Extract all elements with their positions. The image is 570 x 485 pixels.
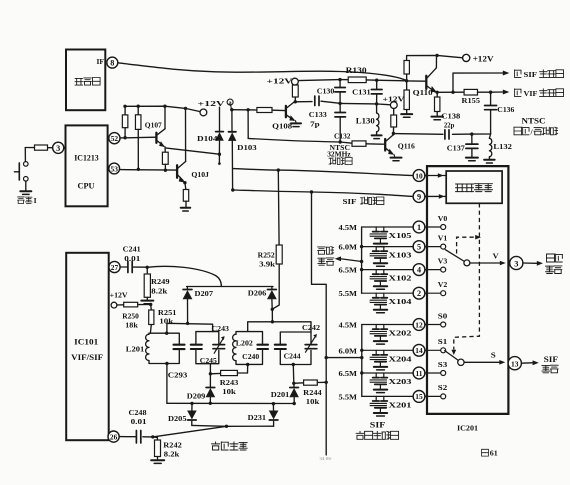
arrow into pin 3 [500,261,506,266]
wire D206 node to tank2 rail [271,309,273,321]
ceramic filter X104 [370,293,388,313]
ceramic filter X201 [370,396,388,416]
svg-text:8.2k: 8.2k [151,286,168,295]
label +12V (top right) [473,54,494,63]
wire row X102 [362,269,414,271]
ground (switch) [20,191,31,194]
node D201 bottom [293,402,296,405]
resistor divider bottom [404,81,409,113]
label SIF bandpass (dai-tong-lv-bo-qi) [356,420,399,439]
svg-text:C133: C133 [309,110,327,119]
wire diagonal Q107 emitter to D104 [165,148,219,154]
pin 26 [108,431,119,442]
IC201 box [427,166,508,414]
wire SIF branch up and right [453,73,503,92]
label X102 [389,274,412,283]
node R-a on 52 line [123,136,126,139]
node rail-R2 [137,105,140,108]
label D206 [248,288,267,297]
node bus row5 [360,245,363,248]
svg-text:22p: 22p [444,120,455,129]
svg-text:5.5M: 5.5M [339,289,358,298]
wire base line [407,80,426,82]
+12V terminal (L130 area) [390,102,397,109]
node tank1 bottom [165,362,168,365]
svg-text:V1: V1 [438,234,448,242]
label D205 [168,414,187,423]
svg-text:4.5M: 4.5M [339,321,358,330]
svg-text:D231: D231 [248,413,267,422]
CPU box IC1213 [66,125,108,206]
label VIF/SIF [71,353,103,362]
node SIF branch [451,91,454,94]
node Q110 emitter [436,91,439,94]
label SIF output [542,355,558,373]
label 5.5M (row X201) [339,392,358,401]
label R249 8.2k [151,277,170,295]
label IC101 [74,338,98,347]
svg-text:L202: L202 [236,339,253,347]
diode D104 [216,107,224,165]
ground (Q116) [391,158,402,161]
label NTSC image/sound ratio [514,117,558,137]
label S1 [438,338,448,346]
svg-text:4.5M: 4.5M [339,223,358,232]
wire long vertical (SIF feed to S-filters) [312,192,327,455]
svg-text:S1: S1 [438,338,448,346]
svg-text:D201: D201 [271,390,290,399]
label C243 [212,324,230,333]
wire to +12V terminal [186,108,201,111]
contact S1 [441,348,446,353]
label detector output (jian-bo shu-chu) [318,247,334,266]
resistor Q116 base [352,141,384,146]
svg-text:52: 52 [111,134,119,143]
wire NTSC line to pin 10 [233,169,413,176]
svg-text:12: 12 [415,320,423,329]
switch zhishi (mode select) [14,162,28,182]
+12V terminal (IC101 area) [111,302,117,308]
wire pin52 line [120,136,156,139]
inductor L132 [489,134,491,159]
svg-text:S0: S0 [438,312,448,320]
contact S2 [441,394,446,399]
wire switch to ground [25,181,27,190]
contact V0 [441,225,446,230]
wire S feed from long vertical [325,356,362,359]
node C137 top [470,132,473,135]
ground (L130) [372,135,382,138]
wire pin8 to Q110 base node [118,63,407,81]
svg-text:C242: C242 [302,323,320,332]
svg-text:10: 10 [415,171,423,180]
label S [491,351,496,360]
wire top rail 12V to Q107/Q10J [125,106,186,108]
node C131-L130 junction [375,102,378,105]
svg-text:C132: C132 [334,131,351,140]
resistor divider top [404,61,409,75]
wire pin27 to C241 [120,266,127,268]
svg-text:+12V: +12V [267,76,294,85]
pin 52 [109,133,120,144]
wire row X104 [362,292,414,294]
wire junction row C130-C131-12V [340,103,390,104]
switch S common [458,359,464,365]
wire pin 15 to contact S2 [425,395,441,397]
label R251 10k [158,308,177,326]
label Q116 [398,142,415,151]
ceramic filter X105 [370,227,388,247]
node D206-R252 [271,308,274,311]
svg-text:VIF/SIF: VIF/SIF [71,353,103,362]
svg-text:53: 53 [111,164,119,173]
svg-text:Q107: Q107 [145,121,162,130]
label C293 [168,371,188,380]
+12V terminal (Q107 area) [200,109,207,116]
label D209 [187,392,206,401]
wire tank1 bottom drop [166,364,168,404]
resistor R252 [276,245,282,264]
resistor R130 [340,77,377,83]
wire node A drop to NTSC trap line [246,108,249,138]
svg-text:1: 1 [417,223,421,232]
dashed branch to V switch [457,237,475,253]
capacitor C130 [335,80,346,104]
ground (C137) [466,158,478,161]
svg-text:2: 2 [417,289,421,298]
V-group bus [361,227,363,293]
label V [493,251,500,260]
transistor Q107 [156,106,165,147]
wire pin26 to C248 [119,436,135,438]
wire Q108 collector node [294,100,296,103]
label C240 [242,353,259,361]
+12V terminal (Q108) [292,78,299,85]
ceramic filter X103 [370,247,388,267]
svg-text:15: 15 [415,392,423,401]
wire pin 11 to contact S3 [425,372,441,374]
node C130 top on rail [338,78,341,81]
svg-text:C130: C130 [317,86,335,95]
diode D206 [268,287,277,310]
label D201 [271,390,290,399]
capacitor C244 plates [275,345,286,349]
label X204 [389,354,412,363]
label R130 [346,66,367,75]
svg-text:+12V: +12V [383,95,406,104]
wire row X204 [362,349,413,351]
svg-text:3: 3 [514,259,518,268]
ceramic filter X204 [370,350,388,370]
svg-text:X202: X202 [389,329,412,338]
capacitor C293 (on L201 box edge) [174,345,185,349]
svg-text:C240: C240 [242,353,259,361]
svg-text:D209: D209 [187,392,206,401]
node rail-Q107 collector [163,105,166,108]
pin 4 [413,264,425,276]
label C133 [309,110,327,128]
resistor Q110 emitter [435,92,440,115]
wire C241 node to discriminator top (curved) [147,266,221,286]
svg-text:R130: R130 [346,66,367,75]
svg-text:11: 11 [416,369,423,378]
label C241 0.01 [123,245,141,263]
svg-text:18k: 18k [125,320,138,329]
wire Q116 emitter to ground [393,155,395,157]
wire a to node A [231,105,232,110]
label IC201 [457,423,478,432]
node R-b bottom on 53 line [137,168,140,171]
label 6.0M (row X204) [339,346,358,355]
contact V1 [441,244,446,249]
switch S lever [445,351,459,361]
label C244 [284,353,301,361]
resistor Q107 emitter [162,152,168,170]
svg-text:C243: C243 [212,324,230,333]
inductor L130 [377,104,379,135]
label D103 [237,143,257,152]
label mode-I (zhi-shi I) [18,197,37,205]
pin 9 [413,191,425,203]
arrow to VIF amp [503,90,510,95]
arrow on V control [475,235,481,240]
pin 10 [413,170,425,182]
net mark a (circled) [227,99,233,107]
label L201 [126,345,145,354]
svg-text:V2: V2 [438,281,448,289]
wire pin3 to box [64,147,66,149]
node emitter-R on 53 line [164,169,167,172]
label L130 [356,117,375,126]
ground (R249) [141,301,153,304]
wire pin9 into logic [425,194,446,199]
label to-SIF-amplifier [515,70,564,79]
switch V lever [445,250,464,262]
svg-text:6.5M: 6.5M [339,369,358,378]
node bottom line [225,425,228,428]
wire emitter to R155 [437,91,464,93]
svg-text:6.5M: 6.5M [339,266,358,275]
label figure 61 [482,449,499,457]
resistor Q108 collector (to +12V) [292,85,298,102]
wire R252 to D206 node [272,264,279,309]
node D205 top [190,402,193,405]
wire pin 2 to contact V2 [425,292,441,294]
svg-text:CPU: CPU [78,180,95,190]
wire video out [523,262,537,264]
svg-text:L201: L201 [126,345,145,354]
node detector-out tap [360,260,363,263]
label C138 22p [441,111,460,129]
wire pin 12 to contact S0 [425,324,441,326]
svg-text:7p: 7p [310,119,320,128]
wire pin 14 to contact S1 [425,349,441,351]
svg-text:C131: C131 [352,88,371,97]
wire pin 5 to contact V1 [425,246,441,248]
node Q10J emitter [183,181,186,184]
svg-text:D103: D103 [237,143,257,152]
pin 1 [413,221,425,233]
svg-text:L132: L132 [493,142,512,151]
svg-text:C138: C138 [441,111,460,120]
label S3 [438,361,448,369]
svg-text:SIF: SIF [524,70,538,79]
label R244 10k [303,388,322,406]
label R252 3.9k [258,251,276,269]
label X202 [389,329,412,338]
label tuner (diao-xie-qi) [75,78,100,86]
pin 3 (video out) [510,256,523,269]
svg-text:0.01: 0.01 [124,254,140,263]
wire detector output bottom line [192,424,274,427]
wire row X103 [362,246,414,248]
diode D201 [290,383,299,403]
svg-text:IF: IF [97,57,105,66]
label C131 [352,88,371,97]
svg-text:IC201: IC201 [457,423,478,432]
label Q110 [413,88,433,97]
node C136 top [489,91,492,94]
ceramic filter X202 [370,325,388,345]
svg-text:R249: R249 [151,277,170,286]
wire pin53 line [120,169,177,172]
+12V terminal (top right) [463,54,470,61]
svg-text:+12V: +12V [198,99,226,108]
svg-text:8: 8 [110,59,114,68]
label D104 [197,134,218,143]
node C244 bottom stub [292,363,296,385]
svg-text:0.01: 0.01 [131,417,147,426]
resistor R251 [149,305,154,334]
label C248 0.01 [129,408,147,426]
node S feed [360,356,363,359]
capacitor C244 tank box [280,332,311,365]
svg-text:V0: V0 [438,215,448,223]
resistor Q116 collector from +12V [391,109,397,134]
svg-text:C293: C293 [168,371,188,380]
label X103 [389,251,412,260]
arrow SIF out [533,360,539,365]
logic circuit box [446,171,502,203]
ground (L132) [484,160,495,163]
wire down to switch [24,148,26,162]
label C132 [334,131,351,140]
wire emitter to resistor [184,183,187,190]
node A [230,108,233,111]
pin 11 [413,367,425,379]
svg-text:C248: C248 [129,408,147,417]
resistor R250 [117,302,151,307]
wire SIF out [521,362,532,364]
watermark tiny text [320,456,333,461]
label Q10J [191,170,209,179]
svg-text:C245: C245 [200,356,217,365]
capacitor C245 plates [191,345,202,349]
svg-text:V: V [493,251,500,260]
label +12V (Q107 area) [198,99,226,108]
label C137 [447,143,465,152]
trimmer C243 (on C245 box edge) [213,336,225,353]
svg-text:C244: C244 [284,353,301,361]
svg-text:IC101: IC101 [74,338,98,347]
svg-text:X204: X204 [389,354,412,363]
svg-text:C241: C241 [123,245,141,254]
label +12V (Q108) [267,76,294,85]
svg-text:D205: D205 [168,414,187,423]
svg-text:I: I [34,197,37,205]
wire pin10 into logic [425,173,446,178]
wire R243 to L202 bottom [246,363,249,373]
svg-text:R155: R155 [462,96,481,105]
label C242 [302,323,320,332]
wire to L132 corner [472,133,491,135]
pin 12 [413,319,425,331]
transistor Q110 [426,55,437,92]
capacitor C248 [136,430,152,443]
inductor L202 tank box [233,332,263,365]
label 4.5M (row X105) [339,223,358,232]
svg-text:6.0M: 6.0M [339,346,358,355]
resistor R155 [464,89,491,95]
svg-text:10k: 10k [306,397,320,406]
svg-text:R243: R243 [220,378,239,387]
node bus row14 [360,349,363,352]
transistor Q108 [286,101,296,121]
ground (R242) [151,460,164,463]
diode D207 [183,287,192,324]
svg-text:IC1213: IC1213 [74,154,99,163]
label V2 [438,281,448,289]
wire R252 drop [277,170,280,245]
arrow to SIF amp [503,71,510,76]
svg-text:Q110: Q110 [413,88,433,97]
svg-text:D206: D206 [248,288,267,297]
arrow into pin 13 [499,360,505,365]
node rail end to +12V [184,107,187,110]
label V3 [438,257,448,265]
svg-text:S: S [491,351,496,360]
svg-text:9: 9 [417,193,421,202]
label +12V (L130 area) [383,95,406,104]
transistor Q116 [385,135,394,155]
pin 53 [109,163,120,174]
svg-text:X103: X103 [389,251,412,260]
wire diode bridge line [167,402,294,404]
node R251 top [149,303,152,306]
svg-text:4: 4 [417,265,421,274]
wire NTSC trap line [248,138,352,143]
svg-text:V3: V3 [438,257,448,265]
label D231 [248,413,267,422]
pin 14 [413,344,425,356]
svg-text:+12V: +12V [110,291,129,300]
label X201 [389,400,412,409]
diode D231 [269,404,278,427]
node feed on tank2 rail [271,320,274,323]
wire row X105 [362,226,414,228]
resistor R249 [144,267,150,299]
node C132 on trap line [339,140,342,143]
svg-text:5.5M: 5.5M [339,392,358,401]
node D104-diagonal junction [218,153,221,156]
svg-text:/: / [530,127,534,136]
wire Q10J collector up to rail [185,108,187,161]
svg-text:R242: R242 [163,440,182,449]
label SIF trap (xian-bo-qi) [343,197,384,206]
svg-text:X105: X105 [389,231,412,240]
label 4.5M (row X202) [339,321,358,330]
svg-text:5: 5 [417,242,421,251]
